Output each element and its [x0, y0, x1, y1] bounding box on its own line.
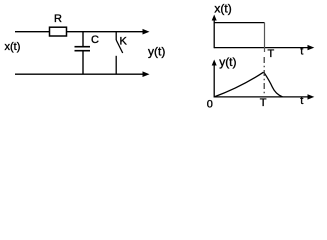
graph 1 x-axis — [214, 47, 309, 49]
arrowhead top output — [143, 29, 150, 35]
arrowhead bottom output — [143, 71, 150, 77]
graph 1 y-axis — [213, 18, 215, 48]
graph 2 y-axis arrowhead — [212, 60, 217, 66]
graph 2 x-axis — [214, 96, 309, 98]
svg-text:y(t): y(t) — [148, 45, 165, 59]
wire top middle segment to output arrow — [67, 31, 144, 33]
svg-text:T: T — [268, 48, 275, 60]
capacitor C bottom lead — [82, 51, 84, 74]
switch K blade (open) — [116, 40, 123, 53]
svg-text:x(t): x(t) — [214, 2, 231, 16]
graph 1 y-axis arrowhead — [212, 15, 217, 21]
svg-text:R: R — [54, 13, 62, 25]
graph 2 y-axis — [213, 63, 215, 98]
graph 1 pulse top — [214, 22, 264, 24]
switch K top stub — [115, 32, 117, 40]
capacitor C bottom plate — [75, 50, 91, 52]
svg-text:t: t — [300, 45, 303, 57]
svg-text:y(t): y(t) — [219, 55, 236, 69]
svg-text:0: 0 — [207, 99, 213, 111]
graph 2 dash-dot marker line at T — [263, 57, 265, 96]
svg-text:t: t — [300, 95, 303, 107]
resistor R — [50, 27, 67, 36]
graph 1 x-axis arrowhead — [308, 45, 315, 50]
svg-text:x(t): x(t) — [5, 41, 21, 53]
graph 1 pulse falling edge with tick below axis — [264, 23, 266, 52]
capacitor C top plate — [75, 46, 91, 48]
wire bottom return — [15, 73, 144, 75]
graph 2 discharge decay curve — [264, 72, 283, 97]
svg-text:K: K — [120, 36, 128, 48]
wire top-left input segment — [15, 31, 50, 33]
graph 2 x-axis arrowhead — [308, 94, 315, 99]
switch K bottom stub — [115, 56, 117, 74]
svg-text:C: C — [91, 34, 99, 46]
capacitor C top lead — [82, 32, 84, 46]
graph 2 charge ramp curve — [214, 72, 263, 97]
svg-text:T: T — [260, 97, 267, 109]
